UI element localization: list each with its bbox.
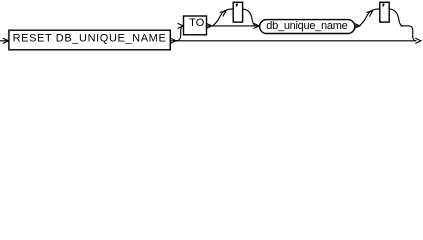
svg-text:RESET DB_UNIQUE_NAME: RESET DB_UNIQUE_NAME — [13, 32, 166, 44]
svg-text:TO: TO — [189, 17, 205, 29]
svg-text:db_unique_name: db_unique_name — [266, 20, 347, 32]
